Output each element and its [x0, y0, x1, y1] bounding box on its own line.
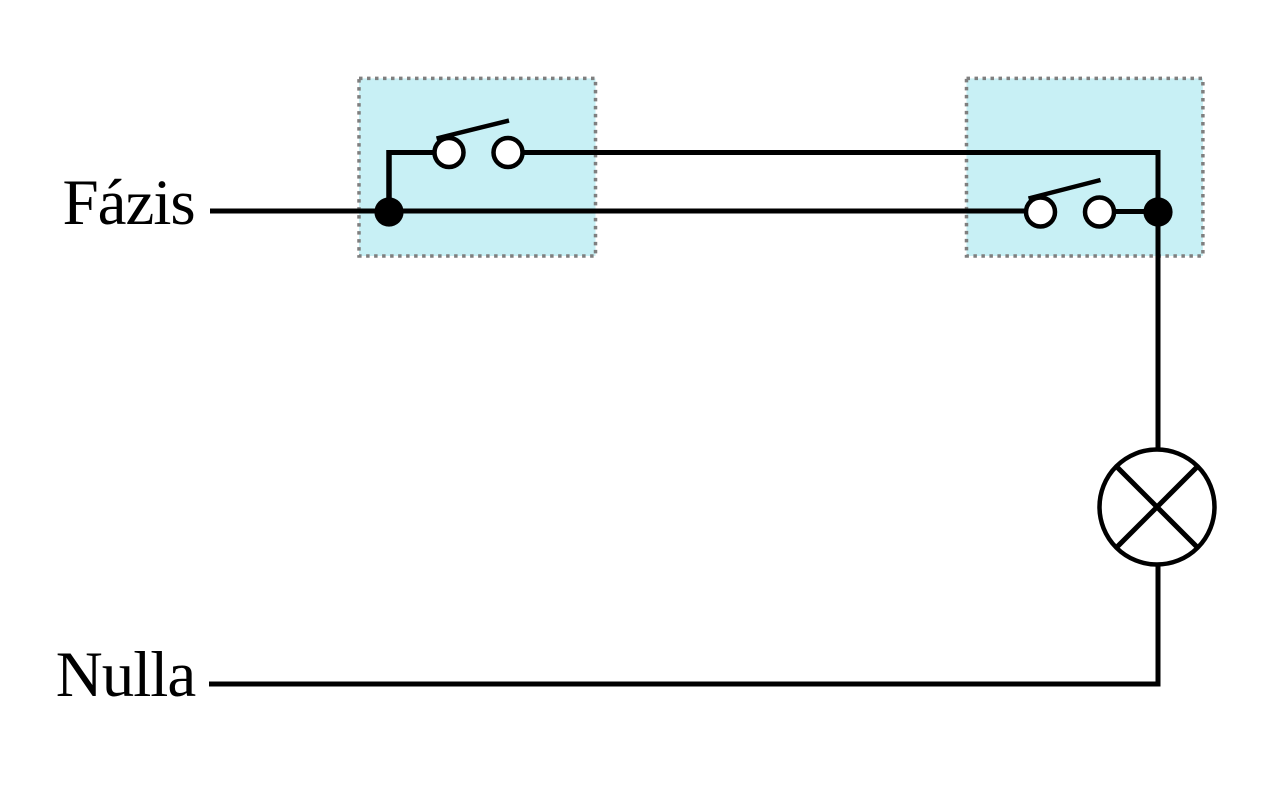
- wire S1 riser from junction A: [386, 150, 392, 212]
- wire Fázis lead to switch S2 input: [210, 209, 1024, 214]
- switch S1 lever: [437, 121, 510, 139]
- lamp E1 cross: [1116, 466, 1197, 547]
- switch box S2 highlight: [967, 78, 1203, 256]
- wire top link S1 to S2 and down to junction B: [522, 153, 1158, 213]
- switch S2 lever: [1029, 180, 1101, 199]
- wire lamp to Nulla lead: [209, 565, 1158, 685]
- wire junction B down to lamp: [1156, 212, 1161, 450]
- switch S2 contact terminals: [1026, 198, 1114, 227]
- switch S1 contact terminals: [435, 138, 523, 167]
- wire S1 input link: [389, 150, 435, 155]
- svg-text:Fázis: Fázis: [63, 167, 195, 239]
- lamp E1 body: [1100, 450, 1215, 565]
- switch box S1 highlight: [359, 78, 596, 256]
- svg-text:Nulla: Nulla: [56, 639, 196, 711]
- junction node A: [374, 197, 403, 226]
- junction node B: [1143, 197, 1172, 226]
- wire S2 output link to junction B: [1114, 209, 1158, 214]
